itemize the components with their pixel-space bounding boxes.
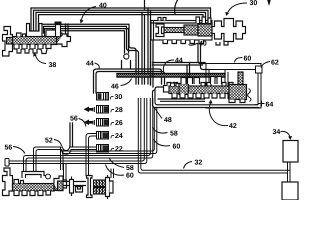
svg-text:24: 24: [115, 133, 123, 140]
wire J right stub pair: [111, 169, 114, 179]
svg-text:44: 44: [175, 58, 183, 65]
label 38: [33, 53, 56, 70]
hatched block of 30: [184, 25, 198, 35]
wire top bundle line 3: [36, 12, 206, 34]
reservoir box 36: [282, 182, 298, 200]
stippled collar of 54: [54, 184, 63, 191]
right spool block in box: [229, 85, 247, 100]
svg-text:56: 56: [70, 116, 78, 123]
label 30b: [110, 94, 122, 101]
svg-text:40: 40: [199, 41, 207, 48]
label 60 mid: [154, 139, 181, 151]
solenoid valve 28: [84, 106, 109, 114]
label 30: [225, 0, 257, 16]
wire top bundle line 1: [31, 8, 211, 34]
svg-text:48: 48: [164, 117, 172, 124]
valve box left body wall: [225, 70, 228, 105]
under-box pipe inner: [155, 87, 258, 105]
svg-text:30: 30: [250, 0, 258, 7]
svg-text:62: 62: [271, 60, 279, 67]
wire solenoid22 left with hump line2: [36, 150, 97, 172]
label 58 mid: [153, 127, 178, 138]
svg-text:60: 60: [173, 144, 181, 151]
channel of gear unit: [63, 182, 86, 186]
svg-text:44: 44: [86, 61, 94, 68]
svg-text:58: 58: [126, 165, 134, 172]
pipe above shaft line 2: [153, 64, 203, 66]
pipe above shaft line 1: [153, 62, 206, 64]
svg-text:22: 22: [115, 146, 123, 153]
pipe 46 outline: [117, 74, 225, 78]
wire H2b line2: [26, 98, 153, 172]
wire mid row line2: [62, 108, 157, 154]
wire bundle center vertical 3: [147, 8, 149, 84]
solenoid valve 22: [97, 145, 109, 153]
label 48: [154, 107, 172, 125]
solenoid valve 26: [84, 119, 109, 127]
svg-text:34: 34: [273, 129, 281, 136]
solenoid valve 24: [97, 132, 109, 140]
flange left bracket of 38: [3, 27, 13, 57]
left hatch block of gear unit: [58, 181, 64, 191]
wire top bundle line 4: [39, 15, 204, 34]
wire 52 vertical pair: [61, 148, 64, 171]
H plate fitting: [70, 177, 74, 197]
flange left bracket bottom: [3, 168, 13, 196]
pillar pair on 38: [45, 29, 53, 37]
wire top bundle line 2: [34, 10, 209, 34]
svg-text:38: 38: [49, 62, 57, 69]
svg-text:56: 56: [5, 145, 13, 152]
right plate of gear unit: [106, 175, 110, 199]
pillar slots in box atop shaft: [211, 77, 222, 85]
BOTTOM PIPE NETWORK: [5, 98, 290, 181]
end fitting left of H2c: [5, 159, 9, 167]
wire bundle center vertical 2: [144, 15, 146, 84]
wire mid row line1: [62, 108, 154, 151]
label 40 top: [80, 3, 107, 24]
wire drop from pipe to shaft: [187, 63, 190, 83]
step block on 38 right: [46, 30, 62, 36]
svg-text:40: 40: [99, 3, 107, 10]
pipe 44 upper line: [94, 69, 162, 93]
under-shaft pipe pair: [158, 99, 206, 101]
bumps above 54 band: [14, 180, 24, 184]
label 60 box: [235, 56, 252, 63]
ASSEMBLY 38 (top-left shaft): [3, 22, 71, 57]
inlet channel on top of 54: [22, 172, 50, 179]
teeth under 42: [172, 94, 225, 99]
label 24: [111, 133, 123, 140]
svg-text:30: 30: [115, 94, 123, 101]
spring wave in box: [248, 89, 251, 102]
shaft rod of 30: [164, 28, 206, 33]
wire pipe 32 line2: [138, 98, 287, 173]
wire solenoid24 left drop line2: [89, 136, 97, 176]
label 26: [111, 120, 123, 127]
hatched right gland of 30: [198, 24, 212, 36]
top pillar slots on 42: [181, 78, 200, 85]
under-box pipe outer: [153, 90, 260, 108]
bumps on top of 38: [17, 33, 26, 37]
wire bundle center vertical 4: [150, 10, 152, 84]
wire bundle center vertical 1: [141, 12, 143, 84]
label 44 left: [86, 61, 99, 70]
wire J drop pair: [64, 164, 67, 182]
left cap of shaft 42: [164, 86, 170, 93]
pipe 46 hatched body: [117, 74, 225, 78]
svg-text:28: 28: [115, 107, 123, 114]
valve box inner wall: [209, 70, 258, 105]
svg-text:26: 26: [115, 120, 123, 127]
label 60 bottom: [106, 165, 134, 180]
wire H2b line1: [24, 98, 151, 172]
hatched band of 54: [13, 184, 55, 192]
solenoid valve 30b: [97, 93, 109, 101]
housing of 30 inner wall: [151, 21, 212, 41]
right end steps of 38: [57, 34, 71, 47]
wire housing30 left drop pair: [151, 40, 154, 87]
ASSEMBLY 54 (bottom-left shaft): [3, 168, 67, 196]
wire tank connect pair: [288, 162, 291, 182]
wire loop 40 line 2: [44, 26, 139, 84]
wire H2c line2: [9, 98, 147, 164]
wire loop 40 line 3: [46, 29, 129, 53]
label 28: [111, 107, 123, 114]
channel inner line: [26, 175, 42, 179]
capped pillar on 38: [56, 25, 61, 37]
label 56 upper: [70, 116, 86, 127]
wire vertical pair 56 left: [69, 123, 71, 147]
wire pipe 32 line1: [141, 98, 290, 170]
label 32: [184, 160, 203, 169]
pillar U-slot on 38: [27, 24, 43, 37]
label 44 right: [163, 58, 183, 72]
right end steps of 54: [54, 176, 67, 191]
teeth under 30: [163, 40, 204, 44]
label 58 bottom: [110, 159, 134, 173]
right cap: [110, 181, 114, 193]
junction circle node: [124, 54, 129, 59]
label 42: [209, 100, 237, 131]
wire stub pair into 38: [66, 24, 69, 36]
leader line from top edge: [144, 0, 146, 9]
stub pillars atop 30: [196, 17, 211, 23]
svg-text:52: 52: [45, 138, 53, 145]
bracket I-beam in 30: [156, 24, 164, 37]
wire solenoid24 left drop line1: [86, 134, 97, 177]
fitting 62 at box corner: [256, 66, 263, 73]
bars in gear blocks: [97, 180, 103, 194]
leader curve from top edge to valve 30: [175, 0, 178, 14]
svg-text:60: 60: [126, 173, 134, 180]
teeth under 54: [14, 191, 51, 196]
CENTRAL ASSEMBLY 42: [153, 72, 260, 108]
hatched pillar in box: [238, 72, 243, 85]
stippled collar of 38: [57, 36, 68, 44]
label 34: [273, 129, 293, 140]
svg-text:46: 46: [111, 84, 119, 91]
pillar cap dark: [55, 22, 62, 25]
valve box outer wall: [206, 64, 261, 109]
svg-text:42: 42: [229, 123, 237, 130]
ASSEMBLY 30 (top-right shaft): [151, 17, 246, 45]
second teeth row under 38: [17, 49, 47, 54]
step under spool: [229, 100, 245, 103]
hatched band of 38: [13, 37, 57, 45]
VALVE BOX 60: [206, 64, 262, 109]
label 52: [45, 138, 62, 147]
junction circle pedestal: [122, 61, 131, 69]
housing of 30 outer: [151, 21, 212, 41]
wire right drop to valve box inner: [201, 44, 210, 70]
svg-text:58: 58: [170, 131, 178, 138]
label 22: [111, 146, 123, 153]
small bumps atop 42: [171, 83, 180, 86]
ASSEMBLY bottom-center gear unit: [58, 175, 114, 199]
piston 30 right castellated: [212, 19, 246, 42]
pipe 44 lower line: [96, 72, 165, 94]
teeth atop 30: [158, 18, 166, 21]
wire solenoid22 left with hump line1: [34, 147, 97, 172]
figure pointer arrow top right: [267, 0, 271, 6]
label 56 lower: [5, 145, 26, 154]
teeth atop shaft 42: [167, 83, 233, 87]
hatched gear block upper: [94, 180, 106, 187]
small box fitting: [76, 187, 83, 193]
svg-text:32: 32: [195, 160, 203, 167]
label 40 lower: [189, 41, 207, 48]
I-beam flange: [87, 176, 93, 198]
hatched gear block lower: [94, 188, 106, 195]
svg-text:60: 60: [244, 56, 252, 63]
label 62: [261, 60, 279, 68]
shaft band 42: [169, 86, 230, 94]
wire loop 40 line 4: [49, 31, 125, 53]
thick hatch block 42: [179, 84, 189, 95]
wire right drop to valve box outer: [198, 44, 206, 64]
reservoir box 34: [283, 141, 298, 163]
teeth marks under piston: [216, 42, 228, 45]
wire loop 40 outer: [41, 24, 136, 84]
flange hatch block of 38: [7, 38, 13, 45]
junction circle on 54: [46, 174, 51, 179]
svg-text:64: 64: [266, 102, 274, 109]
wire H2c line1: [9, 98, 144, 161]
label 64: [259, 101, 274, 109]
wire vertical pair 56 right: [72, 123, 74, 147]
label 46: [111, 79, 132, 91]
teeth under 38: [14, 45, 51, 50]
